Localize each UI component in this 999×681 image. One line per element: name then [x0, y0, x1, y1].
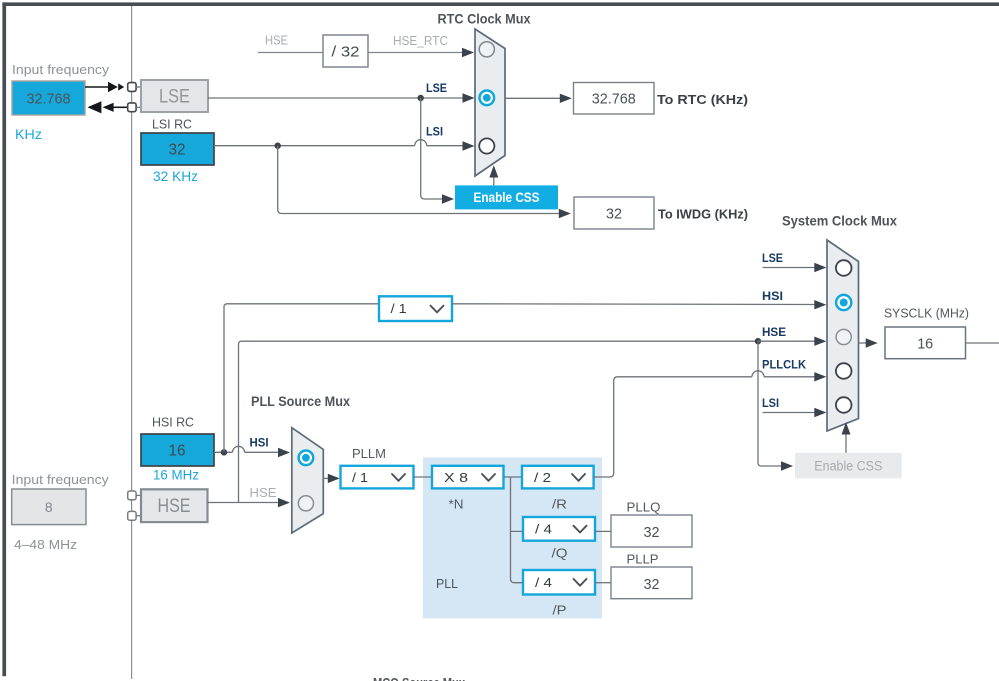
HSE oscillator box (disabled) [141, 489, 208, 522]
svg-text:32: 32 [606, 205, 622, 222]
junction dot LSI branch [275, 143, 281, 149]
HSE input frequency box 8 (disabled) [12, 489, 86, 525]
svg-text:X 8: X 8 [444, 470, 468, 485]
arrowhead double left [87, 101, 113, 113]
svg-text:/ 4: / 4 [535, 522, 552, 537]
pin square LSE OSC32_OUT [128, 103, 136, 112]
arrowhead into IWDG box [559, 209, 571, 218]
LSE input frequency box 32.768 [12, 81, 85, 115]
PLLP divider dropdown /4 [523, 570, 595, 595]
arrowhead into SYSCLK box [866, 338, 878, 347]
svg-text:PLLQ: PLLQ [627, 501, 661, 515]
svg-text:8: 8 [45, 499, 53, 515]
stub pin to HSE box lower [136, 515, 141, 517]
svg-text:32.768: 32.768 [27, 91, 71, 108]
pin square LSE OSC32_IN [128, 83, 136, 92]
wire LSI stub to system mux [763, 412, 815, 414]
svg-text:/ 1: / 1 [352, 470, 368, 485]
svg-text:32: 32 [169, 142, 186, 159]
svg-text:HSI: HSI [762, 289, 783, 303]
stub pin to LSE box lower [136, 106, 141, 108]
arrowhead PLLCLK into system mux [814, 372, 826, 381]
svg-text:/ 4: / 4 [535, 575, 552, 590]
wire system mux to SYSCLK box [859, 342, 867, 344]
arrowhead into RTC value box [560, 94, 572, 103]
PLL mux radio HSI (selected) [299, 451, 314, 466]
RTC mux radio LSE (selected) [480, 91, 495, 106]
wire HSE to PLL mux [208, 502, 279, 504]
svg-text:SYSCLK (MHz): SYSCLK (MHz) [884, 305, 969, 320]
PLLP value box 32 [611, 567, 692, 599]
svg-text:HSE_RTC: HSE_RTC [393, 34, 448, 48]
arrowhead up into RTC mux [489, 165, 498, 177]
wire LSE branch down to Enable CSS [421, 98, 443, 199]
wire junction vertical [511, 477, 524, 583]
arrowhead into Enable CSS [442, 194, 454, 203]
svg-text:MCO Source Mux: MCO Source Mux [373, 676, 465, 681]
system mux radio HSE (inactive) [836, 329, 851, 344]
svg-text:LSE: LSE [159, 87, 190, 108]
wire Enable CSS up arrow (system) [845, 433, 847, 453]
arrowhead LSE into system mux [814, 263, 826, 272]
wire HSI divider to system mux [452, 303, 815, 306]
SYSCLK value box 16 [885, 327, 966, 359]
PLLR divider dropdown /2 [522, 466, 594, 489]
PLLM dropdown /1 [341, 466, 414, 489]
wire LSE out arrow left [114, 106, 128, 108]
PLLQ divider dropdown /4 [523, 517, 595, 541]
pin square HSE OSC_OUT [128, 511, 136, 520]
svg-text:KHz: KHz [15, 126, 42, 142]
wire HSI to PLL mux with hop [214, 446, 279, 452]
svg-text:16: 16 [917, 335, 933, 352]
arrowhead HSE into PLL mux [278, 498, 290, 507]
wire PLLQ to value box [595, 530, 611, 532]
svg-text:LSI: LSI [426, 125, 443, 139]
wire SYSCLK out to right edge [966, 342, 999, 344]
Enable CSS button (disabled) [795, 453, 902, 479]
Enable CSS button (active) [455, 185, 558, 209]
PLL mux radio HSE (inactive) [298, 496, 313, 511]
svg-text:HSE: HSE [762, 325, 786, 339]
svg-text:System Clock Mux: System Clock Mux [782, 214, 897, 229]
arrowhead up into system mux [842, 422, 851, 434]
svg-text:/ 1: / 1 [391, 301, 407, 316]
svg-text:HSE: HSE [265, 34, 288, 48]
wire PLL mux to PLLM [323, 477, 328, 479]
svg-text:LSI RC: LSI RC [152, 118, 192, 132]
system mux radio PLLCLK [836, 363, 852, 379]
wire HSE to /32 divider [258, 52, 323, 54]
PLL shaded region [423, 457, 602, 618]
svg-text:PLL Source Mux: PLL Source Mux [251, 394, 350, 409]
svg-text:/ 32: / 32 [332, 44, 360, 61]
stub pin to HSE box [136, 494, 141, 496]
svg-text:/R: /R [552, 498, 567, 512]
svg-text:Input frequency: Input frequency [12, 472, 110, 487]
wire HSE branch down to Enable CSS [758, 341, 782, 466]
HSI RC source box 16 [141, 434, 214, 466]
svg-text:PLL: PLL [436, 576, 458, 591]
svg-text:HSI: HSI [250, 436, 269, 450]
wire PLLR up to PLLCLK with hop [594, 371, 815, 477]
svg-text:/Q: /Q [552, 547, 568, 561]
wire Enable CSS up arrow [493, 176, 495, 186]
svg-text:Enable CSS: Enable CSS [814, 459, 882, 474]
svg-text:HSI RC: HSI RC [152, 416, 194, 430]
svg-text:32.768: 32.768 [592, 91, 636, 108]
arrowhead HSE_RTC into RTC mux [462, 48, 474, 57]
wire HSE junction to system mux arrow [758, 340, 815, 342]
svg-text:LSI: LSI [762, 396, 779, 410]
wire LSI to RTC mux with hop [214, 140, 464, 146]
arrowhead HSE into system mux [814, 337, 826, 346]
system mux radio LSI [836, 397, 852, 413]
stub pin to LSE box [136, 86, 141, 88]
wire LSE in arrow right [85, 86, 109, 88]
HSI divider dropdown /1 [379, 296, 452, 321]
system mux radio LSE [836, 260, 852, 276]
LSI RC source box 32 [141, 133, 214, 165]
wire HSI branch up to HSI divider [224, 304, 379, 453]
svg-text:/ 2: / 2 [534, 470, 551, 485]
LSE oscillator box [141, 80, 208, 112]
wire LSE stub to system mux [763, 267, 815, 269]
pin square HSE OSC_IN [128, 491, 136, 500]
svg-text:32 KHz: 32 KHz [153, 168, 198, 184]
RTC clock mux trapezoid [475, 29, 505, 176]
PLLN dropdown X 8 [432, 466, 504, 489]
panel top border [2, 2, 999, 6]
svg-text:32: 32 [644, 576, 660, 593]
wire LSI branch down to IWDG [278, 146, 560, 214]
RTC mux radio HSE_RTC (inactive) [479, 42, 494, 57]
wire PLLM to PLLN [414, 476, 433, 478]
wire PLLP to value box [595, 582, 611, 584]
arrowhead LSI into system mux [814, 408, 826, 417]
wire PLLN to dividers junction [504, 476, 523, 478]
svg-text:Input frequency: Input frequency [12, 62, 110, 77]
To IWDG value box 32 [574, 197, 654, 229]
svg-text:PLLP: PLLP [627, 553, 659, 567]
junction dot LSE branch [418, 95, 424, 101]
arrowhead double right [108, 82, 124, 93]
svg-text:HSE: HSE [158, 496, 191, 517]
arrowhead LSE into RTC mux [463, 93, 475, 102]
junction dot HSE at system mux [755, 338, 761, 344]
arrowhead into PLLM [328, 474, 340, 483]
svg-text:HSE: HSE [250, 486, 277, 500]
svg-text:4–48 MHz: 4–48 MHz [14, 537, 77, 552]
arrowhead LSI into RTC mux [463, 141, 475, 150]
wire LSE to RTC mux [208, 97, 464, 99]
system mux radio HSI (selected) [836, 295, 851, 310]
svg-text:RTC Clock Mux: RTC Clock Mux [438, 11, 531, 26]
wire RTC mux to RTC value box [505, 97, 561, 99]
svg-text:16 MHz: 16 MHz [153, 467, 199, 483]
svg-text:32: 32 [644, 524, 660, 541]
wire HSE_RTC to RTC mux [368, 52, 463, 54]
RTC mux radio LSI [479, 138, 494, 153]
svg-text:*N: *N [449, 498, 464, 512]
arrowhead HSI into system mux [814, 300, 826, 309]
svg-text:To RTC (KHz): To RTC (KHz) [657, 92, 748, 107]
svg-text:PLLCLK: PLLCLK [762, 358, 806, 372]
svg-text:LSE: LSE [762, 251, 783, 265]
To RTC value box 32.768 [574, 83, 655, 115]
divider /32 box [323, 35, 368, 67]
svg-text:Enable CSS: Enable CSS [474, 190, 540, 205]
arrowhead into Enable CSS (system) [781, 461, 793, 470]
svg-text:To IWDG (KHz): To IWDG (KHz) [658, 206, 748, 221]
wire HSE branch up to system mux [239, 341, 759, 502]
svg-text:/P: /P [553, 604, 567, 618]
PLL source mux trapezoid [292, 428, 324, 533]
junction dot HSI branch [221, 449, 227, 455]
system clock mux trapezoid [827, 240, 859, 431]
MCU boundary bus line [131, 6, 133, 679]
svg-text:PLLM: PLLM [352, 447, 386, 461]
PLLQ value box 32 [611, 515, 692, 547]
svg-text:LSE: LSE [426, 81, 447, 95]
panel left border [2, 2, 6, 676]
svg-text:16: 16 [169, 443, 186, 460]
arrowhead HSI into PLL mux [278, 448, 290, 457]
